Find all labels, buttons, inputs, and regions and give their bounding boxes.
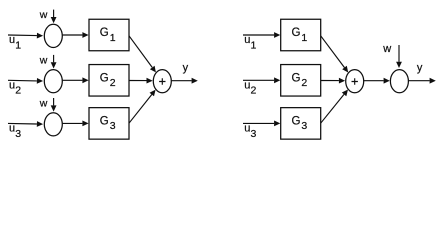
wire w input arrow row 2 (left diagram) <box>51 55 57 69</box>
wire u1 input (right diagram) <box>243 32 280 38</box>
svg-text:G: G <box>100 27 109 39</box>
svg-text:3: 3 <box>251 128 257 140</box>
wire u3 input (left diagram) <box>8 121 43 127</box>
summing junction w row 3 (left diagram) <box>44 113 62 136</box>
block G3 (left diagram) <box>89 108 129 139</box>
svg-text:w: w <box>39 98 48 110</box>
wire w input arrow (right diagram) <box>396 45 402 68</box>
svg-text:2: 2 <box>15 85 21 97</box>
svg-text:2: 2 <box>301 77 307 89</box>
wire u3 input (right diagram) <box>243 121 280 127</box>
svg-text:3: 3 <box>15 128 21 140</box>
node u2 label (right diagram) <box>244 80 256 97</box>
node y label (left diagram) <box>183 62 189 74</box>
block G2 (left diagram) <box>89 65 129 97</box>
wire G2 to adder (right diagram) <box>321 78 345 84</box>
svg-text:2: 2 <box>251 85 257 97</box>
block G2 (right diagram) <box>281 65 321 97</box>
svg-text:u: u <box>244 123 250 135</box>
node u3 label (right diagram) <box>244 123 256 140</box>
adder plus sign (left diagram) <box>159 78 165 84</box>
svg-text:u: u <box>9 80 15 92</box>
node u3 label (left diagram) <box>9 123 21 140</box>
node w label row 2 (left diagram) <box>39 55 48 67</box>
svg-text:y: y <box>183 62 189 74</box>
wire adder to output y (left diagram) <box>172 78 198 84</box>
svg-text:G: G <box>292 27 301 39</box>
wire adder to w junction (right diagram) <box>364 78 390 84</box>
wire u2 input (left diagram) <box>8 78 43 84</box>
svg-text:w: w <box>39 55 48 67</box>
wire G1 to adder (right diagram) <box>321 36 349 73</box>
node w label row 3 (left diagram) <box>39 98 48 110</box>
adder plus sign (right diagram) <box>352 78 358 84</box>
node u1 label (left diagram) <box>9 34 21 51</box>
svg-text:u: u <box>244 34 250 46</box>
adder (left diagram) <box>153 70 171 93</box>
adder (right diagram) <box>346 70 364 93</box>
wire u1 input (left diagram) <box>8 33 43 39</box>
node u1 label (right diagram) <box>244 34 256 51</box>
node y label (right diagram) <box>417 62 423 74</box>
block diagram figure <box>0 0 443 150</box>
svg-text:w: w <box>382 43 391 55</box>
svg-text:3: 3 <box>110 120 116 132</box>
svg-text:G: G <box>100 116 109 128</box>
node w label row 1 (left diagram) <box>39 9 48 21</box>
wire junction to G1 (left diagram) <box>63 32 89 38</box>
wire w junction to output y (right diagram) <box>409 78 436 84</box>
block G1 (right diagram) <box>281 19 321 51</box>
node u2 label (left diagram) <box>9 80 21 97</box>
svg-text:u: u <box>244 80 250 92</box>
wire w input arrow row 3 (left diagram) <box>51 98 57 112</box>
svg-text:y: y <box>417 62 423 74</box>
wire junction to G2 (left diagram) <box>63 77 89 83</box>
svg-text:u: u <box>9 34 15 46</box>
wire G3 to adder (left diagram) <box>129 90 156 124</box>
summing junction w row 2 (left diagram) <box>44 70 62 93</box>
wire u2 input (right diagram) <box>243 77 280 83</box>
wire junction to G3 (left diagram) <box>63 121 89 127</box>
wire w input arrow row 1 (left diagram) <box>51 10 57 24</box>
svg-text:2: 2 <box>110 77 116 89</box>
svg-text:3: 3 <box>301 120 307 132</box>
svg-text:w: w <box>39 9 48 21</box>
svg-text:1: 1 <box>301 32 307 44</box>
block G1 (left diagram) <box>89 19 129 51</box>
node w label (right diagram) <box>382 43 391 55</box>
wire G3 to adder (right diagram) <box>321 90 348 124</box>
wire G2 to adder (left diagram) <box>129 78 153 84</box>
svg-text:1: 1 <box>15 39 21 51</box>
block G3 (right diagram) <box>281 108 321 139</box>
svg-text:u: u <box>9 123 15 135</box>
summing junction w row 1 (left diagram) <box>44 24 62 47</box>
svg-text:1: 1 <box>110 32 116 44</box>
svg-text:G: G <box>100 73 109 85</box>
svg-text:G: G <box>292 73 301 85</box>
wire G1 to adder (left diagram) <box>129 36 156 73</box>
svg-text:G: G <box>292 116 301 128</box>
summing junction w (right diagram) <box>390 70 408 93</box>
svg-text:1: 1 <box>251 39 257 51</box>
